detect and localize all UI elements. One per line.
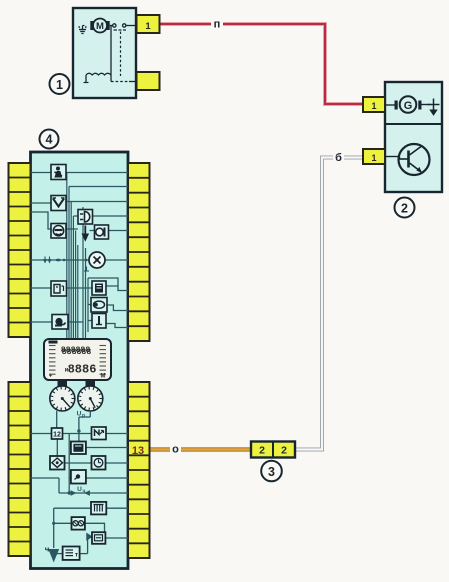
svg-text:п: п	[214, 19, 221, 31]
svg-text:8886: 8886	[68, 363, 97, 377]
svg-text:б: б	[335, 152, 342, 164]
svg-text:2: 2	[259, 445, 265, 457]
svg-text:ч: ч	[45, 545, 49, 554]
svg-text:о: о	[172, 444, 179, 456]
svg-text:2: 2	[401, 201, 408, 215]
svg-text:р: р	[82, 413, 85, 419]
svg-text:13: 13	[132, 445, 144, 457]
svg-text:12: 12	[53, 431, 61, 438]
svg-text:1: 1	[371, 153, 376, 163]
svg-text:т: т	[75, 552, 78, 559]
svg-text:1: 1	[371, 101, 376, 111]
svg-text:M: M	[101, 374, 106, 380]
svg-text:888888: 888888	[62, 348, 92, 357]
svg-text:ч: ч	[83, 489, 86, 495]
svg-text:U: U	[77, 411, 82, 418]
svg-text:3: 3	[268, 465, 275, 479]
svg-text:1: 1	[145, 21, 151, 32]
svg-text:U: U	[77, 486, 82, 493]
svg-text:4: 4	[46, 133, 53, 147]
svg-text:+: +	[49, 374, 53, 380]
svg-text:M: M	[96, 21, 104, 32]
svg-text:1: 1	[56, 78, 63, 92]
svg-text:G: G	[404, 100, 413, 112]
svg-text:2: 2	[281, 445, 287, 457]
